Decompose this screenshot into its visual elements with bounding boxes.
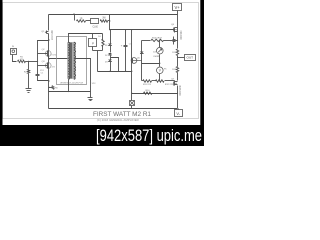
wire shunt to ground [28, 74, 30, 89]
wire fuse column [131, 30, 133, 100]
capacitor C3 [124, 45, 128, 47]
transistor Q6 IRFP240 [174, 28, 176, 33]
node fuse col bus [131, 71, 132, 72]
transformer T1 box [57, 37, 87, 85]
wire main column upper [48, 15, 50, 31]
resistor R12 [156, 80, 165, 82]
wire diode string drop [110, 30, 112, 44]
resistor R22 1R [100, 20, 107, 22]
wire output node [177, 56, 179, 67]
node column lower tap [48, 87, 49, 88]
wire bias feed [109, 15, 111, 30]
svg-text:V-: V- [176, 111, 180, 116]
source V1 trim [157, 67, 164, 74]
node rail-branch left [73, 13, 74, 14]
capacitor C1 on bus [37, 74, 39, 77]
wire input to gate bus [26, 61, 38, 63]
ground secondary [88, 97, 93, 99]
input jack J1 [11, 49, 17, 55]
black border left [0, 0, 3, 146]
wire bias rail [110, 29, 175, 31]
wire bus top branch [38, 41, 49, 81]
resistor R2 shunt [28, 69, 30, 73]
resistor R4 series [102, 39, 104, 46]
V+ supply box [173, 4, 182, 11]
wire D4 top [159, 41, 161, 48]
wire branch rise [108, 20, 110, 22]
svg-text:P: P [92, 41, 94, 45]
wire D2-D3 [110, 56, 112, 60]
node diode top [109, 29, 110, 30]
transformer T1 winding fill [68, 43, 75, 79]
resistor R10 fb [144, 92, 153, 94]
wire bottom rail [49, 108, 178, 110]
wire V+ box to rail [177, 11, 179, 15]
wire Q7 down [177, 86, 179, 109]
wire ladder to gate [165, 80, 175, 82]
fuse F1 [131, 100, 133, 101]
resistor R15 source [176, 49, 178, 56]
node column bus [48, 39, 49, 40]
wire P1 top [92, 34, 94, 39]
wire main column mid1 [48, 34, 50, 59]
node C3 top [125, 29, 126, 30]
wire D1-D2 [110, 46, 112, 53]
transistor Q2 JFET [45, 51, 51, 57]
node lower bus a [109, 71, 110, 72]
wire Q2 gate stub [38, 53, 48, 55]
node branch right [109, 20, 110, 21]
wire fb line [132, 93, 178, 95]
resistor R14 0R47 [151, 39, 164, 41]
capacitor C7 gate [173, 39, 176, 41]
wire ladder left [142, 80, 143, 82]
wire R4 bottom [102, 47, 104, 51]
transformer T1 winding left [68, 42, 70, 79]
black border right [200, 0, 204, 146]
wire C3 bottom [125, 47, 127, 72]
wire V+ rail [49, 14, 178, 16]
wire R14 to column [164, 40, 178, 42]
node fb left [131, 93, 132, 94]
node tap [48, 58, 49, 59]
LED D4 [157, 47, 164, 54]
svg-text:(C) 2018 GENERAL AMPLIFIER: (C) 2018 GENERAL AMPLIFIER [97, 118, 140, 122]
transformer T1 winding right [74, 42, 76, 79]
svg-text:R11 221: R11 221 [143, 84, 152, 86]
wire P1R4 join [93, 50, 103, 52]
transistor Q1 JFET [46, 31, 48, 34]
wire rail to V- box [178, 109, 180, 110]
svg-text:R12 221: R12 221 [165, 84, 174, 86]
capacitor C3 drop [125, 30, 127, 46]
node bias rail start [109, 29, 110, 30]
thermistor TH1 CL-60 box [91, 19, 99, 24]
wire bias vertical [141, 41, 143, 81]
transistor Q7 IRFP9240 [174, 81, 176, 86]
wire branch drop left [74, 15, 76, 21]
wire shunt drop [28, 62, 30, 70]
wire lower bus [98, 71, 132, 73]
wire R4 top [102, 34, 104, 40]
svg-text:JENSEN JT-123-FLPCH: JENSEN JT-123-FLPCH [60, 83, 84, 85]
svg-text:[942x587] upic.me: [942x587] upic.me [96, 126, 202, 145]
svg-text:OUT: OUT [187, 56, 194, 60]
wire main column lower [48, 57, 50, 109]
resistor R6 column branch [49, 87, 53, 89]
transistor Q3 JFET [45, 63, 51, 69]
wire Q3 gate stub [38, 65, 48, 67]
svg-text:IRFP9240: IRFP9240 [180, 84, 182, 95]
svg-text:SPK: SPK [92, 83, 97, 85]
wire diode mid tap [111, 58, 119, 72]
node input shunt [28, 61, 29, 62]
wire V1 top [159, 64, 161, 67]
wire T1 top lead [69, 34, 103, 43]
watermark bar [0, 125, 204, 146]
wire ground bus [49, 91, 91, 93]
wire to OUT box [178, 57, 185, 59]
node ladder mid [159, 80, 160, 81]
resistor R16 source [176, 67, 178, 73]
diode D3 [108, 60, 112, 62]
node D4 top [159, 40, 160, 41]
wire P1 bottom [92, 47, 94, 51]
wire T1 right tap [83, 59, 91, 98]
output connector OUT [185, 55, 196, 61]
wire Q5 base link [137, 60, 142, 62]
node bias bus [159, 63, 160, 64]
transistor Q5 bias [131, 58, 137, 64]
wire V1 bottom [159, 74, 161, 81]
diode D5 clamp [140, 52, 144, 54]
ground input shunt [26, 88, 32, 90]
wire bias top link [142, 40, 151, 42]
wire T1 bottom lead [68, 80, 70, 92]
resistor R11 [143, 80, 152, 82]
wire D4 bottom to bus [159, 55, 161, 64]
wire branch mid [86, 20, 91, 22]
transformer tap wire left [49, 58, 83, 60]
wire diode string bottom [110, 62, 112, 72]
wire ladder mid [152, 80, 156, 82]
node T1 bottom [68, 91, 69, 92]
resistor R21 1R [77, 20, 86, 22]
node column gnd branch [48, 91, 49, 92]
svg-text:1R: 1R [80, 18, 83, 20]
wire trim down [97, 51, 99, 72]
node fb column [177, 93, 178, 94]
svg-text:LU1014D: LU1014D [52, 30, 54, 40]
V- supply box [175, 110, 183, 117]
diode D1 [108, 44, 112, 46]
pot P1 box [89, 39, 97, 47]
node out [177, 57, 178, 58]
wire output column top [177, 15, 179, 49]
svg-text:R14 0R47: R14 0R47 [152, 38, 163, 40]
diode D2 [108, 53, 112, 55]
svg-text:CL60: CL60 [92, 27, 98, 29]
node fuse col top [131, 29, 132, 30]
wire fuse to rail [131, 106, 133, 109]
wire bias bus [142, 63, 160, 65]
node lower bus b [125, 71, 126, 72]
node R14 column [177, 40, 178, 41]
schematic frame border [3, 3, 199, 119]
node column bus bottom [48, 80, 49, 81]
wire input lead [13, 55, 17, 62]
wire to Q7 [177, 73, 179, 81]
svg-text:V+: V+ [174, 5, 180, 10]
resistor R1 475 [18, 60, 26, 62]
transformer T1 core [70, 43, 72, 79]
svg-text:IRFP240: IRFP240 [181, 30, 183, 40]
